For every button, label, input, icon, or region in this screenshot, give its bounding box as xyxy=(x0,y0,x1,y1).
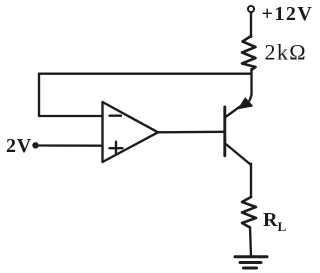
wire supply terminal to resistor R1 top xyxy=(250,12,252,37)
terminal +12V supply node xyxy=(248,6,254,12)
wire op-amp output to transistor Q1 base xyxy=(158,131,224,134)
wire feedback to inverting input xyxy=(39,115,102,117)
wire feedback horizontal top xyxy=(39,73,252,75)
resistor RL load xyxy=(242,197,256,228)
transistor Q1 collector diagonal xyxy=(226,144,251,165)
op-amp non-inverting input plus sign xyxy=(110,142,123,155)
svg-text:+12V: +12V xyxy=(262,3,314,25)
transistor Q1 emitter diagonal xyxy=(226,104,244,117)
transistor Q1 emitter arrowhead xyxy=(239,98,252,108)
wire feedback vertical left xyxy=(38,74,40,116)
resistor R1 2k ohm xyxy=(242,36,256,70)
wire collector to load resistor RL xyxy=(250,164,252,198)
wire 2V source to non-inverting input xyxy=(38,144,103,147)
op-amp inverting input minus sign xyxy=(110,115,122,117)
terminal 2V input node dot xyxy=(33,143,38,148)
wire RL bottom to ground xyxy=(250,227,251,256)
op-amp U1 triangle xyxy=(103,102,159,162)
svg-text:2kΩ: 2kΩ xyxy=(265,40,308,65)
ground symbol xyxy=(235,257,267,268)
svg-text:2V: 2V xyxy=(6,135,32,157)
wire resistor bottom to node A xyxy=(250,69,252,101)
svg-text:RL: RL xyxy=(263,209,286,234)
transistor Q1 base bar xyxy=(223,107,226,156)
